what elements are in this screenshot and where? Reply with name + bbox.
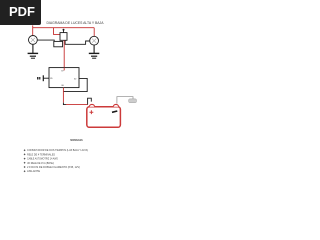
ground (under right lamp) <box>89 45 100 58</box>
wire: red from switch down to relay terminal 87 <box>63 40 65 67</box>
wire: red drop from rail to right lamp <box>93 28 95 37</box>
lamp L2 (right headlight) <box>90 36 99 45</box>
switch S1 (conmutador, upper box with plunger) <box>60 29 67 41</box>
svg-text:DIAGRAMA DE LUCES ALTA Y BAJA: DIAGRAMA DE LUCES ALTA Y BAJA <box>47 21 105 25</box>
lamp L1 (left headlight) <box>29 36 38 45</box>
ground (under left lamp) <box>28 44 38 58</box>
switch S1 lower contact box <box>54 41 63 46</box>
wire: red feed from rail to dimmer switch <box>54 28 61 35</box>
battery plus label <box>90 110 94 114</box>
wire: black from switch to right lamp <box>65 40 90 44</box>
wire: black elbow at junction <box>63 103 66 105</box>
wire: red run to battery positive terminal <box>66 104 88 106</box>
title: DIAGRAMA DE LUCES ALTA Y BAJA <box>47 21 105 25</box>
wire: gray from battery negative to switch plug <box>117 97 133 104</box>
wire: top red supply rail <box>33 27 94 29</box>
relay K1 (4-terminal relay box) <box>49 68 79 88</box>
battery minus label <box>112 111 117 112</box>
wire: red from relay terminal 86 down to battery positive <box>62 88 64 103</box>
materials bullet list <box>24 148 88 173</box>
wire: black from left lamp to dimmer switch <box>37 40 54 41</box>
relay terminal 85 lead and connector plate <box>43 75 49 81</box>
wire: black hook onto battery positive post <box>88 98 92 104</box>
label 85 (outside relay) <box>37 77 40 80</box>
wire: black from relay terminal 30 looping down <box>63 78 87 91</box>
svg-text:AISLANTE: AISLANTE <box>27 169 40 173</box>
battery BT1 (12V) <box>87 104 121 127</box>
PDF badge overlay <box>0 0 41 25</box>
svg-text:MATERIALES: MATERIALES <box>70 138 82 142</box>
wire: red drop from rail to left lamp <box>32 25 34 36</box>
wire: red stub inside relay from terminal 87 <box>63 68 65 71</box>
connector J1 (gray plug) <box>129 99 137 103</box>
